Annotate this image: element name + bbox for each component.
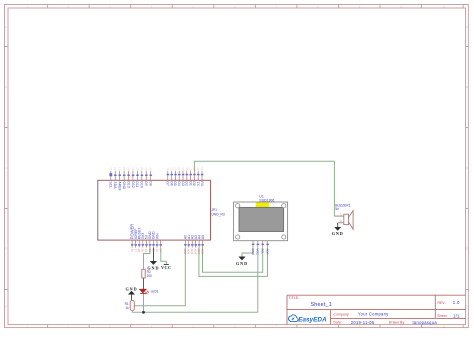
svg-text:5v: 5v [335, 207, 339, 211]
svg-text:E: E [5, 305, 7, 309]
svg-text:EasyEDA: EasyEDA [298, 317, 327, 324]
svg-text:A: A [5, 25, 7, 29]
svg-text:D0: D0 [192, 181, 196, 186]
svg-text:D4: D4 [177, 181, 181, 186]
svg-text:TX: TX [196, 181, 200, 186]
svg-text:30: 30 [144, 249, 148, 253]
svg-text:Company:: Company: [334, 312, 350, 316]
svg-text:D: D [466, 247, 468, 251]
svg-text:1.0: 1.0 [453, 300, 460, 305]
svg-text:32: 32 [151, 249, 155, 253]
svg-text:D6: D6 [169, 181, 173, 186]
svg-text:Drawn By:: Drawn By: [389, 321, 406, 325]
svg-text:SSD1306: SSD1306 [259, 198, 274, 202]
svg-text:VCC: VCC [256, 248, 260, 255]
svg-text:GND: GND [332, 231, 344, 236]
svg-text:SCL: SCL [261, 248, 265, 254]
svg-text:1/1: 1/1 [453, 313, 460, 318]
svg-text:C: C [466, 166, 468, 170]
svg-text:28: 28 [137, 249, 141, 253]
svg-text:D9: D9 [144, 181, 148, 186]
svg-text:tanopasqua: tanopasqua [413, 320, 438, 325]
svg-text:A: A [466, 25, 468, 29]
svg-text:D2: D2 [185, 181, 189, 186]
svg-text:31: 31 [148, 249, 152, 253]
svg-text:SDA: SDA [265, 248, 269, 254]
svg-text:B: B [5, 85, 7, 89]
svg-text:Your Company: Your Company [358, 312, 389, 317]
svg-text:D10: D10 [140, 181, 144, 187]
svg-text:D8: D8 [148, 181, 152, 186]
svg-text:GND: GND [125, 287, 137, 292]
svg-text:26: 26 [130, 249, 134, 253]
svg-text:GND: GND [122, 181, 126, 189]
svg-text:D12: D12 [131, 181, 135, 187]
svg-text:AD3: AD3 [194, 249, 198, 255]
svg-text:B: B [466, 85, 468, 89]
svg-text:Sheet_1: Sheet_1 [311, 302, 332, 308]
svg-text:REV:: REV: [438, 301, 446, 305]
svg-text:SDA: SDA [113, 181, 117, 189]
svg-text:1k: 1k [125, 306, 129, 310]
svg-text:TITLE:: TITLE: [289, 296, 300, 300]
svg-text:AD1: AD1 [187, 249, 191, 255]
svg-text:UNO_R3: UNO_R3 [211, 212, 225, 216]
svg-text:D13: D13 [126, 181, 130, 187]
svg-text:A5: A5 [201, 235, 205, 239]
svg-text:34: 34 [158, 249, 162, 253]
svg-text:RX: RX [200, 181, 204, 187]
svg-text:VCC: VCC [161, 265, 172, 270]
svg-text:AREF: AREF [117, 181, 121, 190]
svg-text:LED1: LED1 [151, 290, 159, 294]
svg-text:JP1: JP1 [211, 208, 217, 212]
svg-text:AD5: AD5 [200, 249, 204, 255]
svg-text:E: E [466, 305, 468, 309]
svg-text:SCL: SCL [109, 181, 113, 188]
svg-text:D1: D1 [188, 181, 192, 186]
svg-text:200: 200 [147, 274, 153, 278]
svg-text:AD4: AD4 [197, 249, 201, 255]
svg-text:Sheet:: Sheet: [437, 314, 447, 318]
svg-text:29: 29 [141, 249, 145, 253]
svg-text:D: D [5, 247, 7, 251]
svg-text:GND: GND [236, 261, 248, 266]
svg-text:GND: GND [251, 248, 255, 256]
svg-text:D3: D3 [181, 181, 185, 186]
svg-text:AD0: AD0 [183, 249, 187, 255]
svg-text:C: C [5, 166, 7, 170]
svg-text:Date:: Date: [334, 321, 343, 325]
svg-text:D5: D5 [173, 181, 177, 186]
svg-text:D7: D7 [166, 181, 170, 186]
svg-text:D11: D11 [135, 181, 139, 187]
svg-text:VIN: VIN [155, 233, 159, 239]
svg-text:33: 33 [155, 249, 159, 253]
svg-text:27: 27 [134, 249, 138, 253]
svg-text:2019-11-05: 2019-11-05 [351, 320, 375, 325]
svg-text:AD2: AD2 [190, 249, 194, 255]
